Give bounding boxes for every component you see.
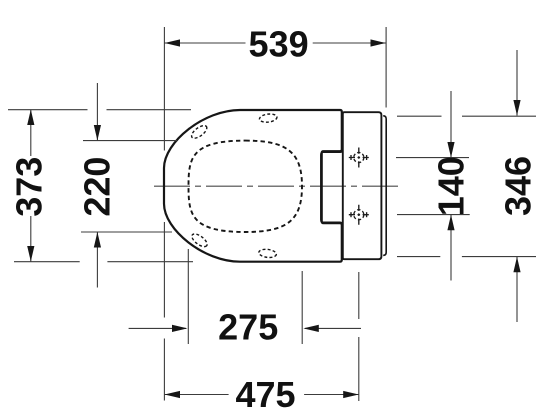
346 up (bottom)	[513, 257, 520, 273]
140 down (top)	[447, 142, 454, 158]
140 up (bottom)	[447, 215, 454, 231]
dim 475 line	[165, 394, 229, 396]
dim 539 line	[165, 42, 246, 44]
346 down (top)	[513, 100, 520, 116]
ext 373 top	[8, 109, 88, 111]
svg-text:140: 140	[431, 156, 472, 216]
ext 275 right	[301, 271, 303, 344]
220 up (bottom)	[94, 232, 101, 248]
ext 275 left	[187, 249, 189, 344]
ext 373 bottom	[14, 261, 80, 263]
ext 220 bottom	[81, 231, 172, 233]
ext 346 bottom	[397, 256, 440, 258]
dim 373 line segments	[30, 110, 32, 157]
bumper bottom-right	[258, 248, 276, 258]
275 left-pointing (right side)	[303, 325, 319, 332]
275 right-pointing (left side)	[172, 325, 188, 332]
475 right	[343, 391, 359, 398]
539 left	[165, 39, 181, 46]
bumper top-right	[259, 113, 277, 123]
dim 275 tails	[129, 327, 186, 329]
ext 140 top	[396, 157, 469, 159]
373 down	[27, 246, 34, 262]
arrowheads	[27, 39, 520, 398]
seat outline	[164, 110, 342, 262]
svg-text:539: 539	[249, 24, 309, 65]
lid edge	[383, 116, 386, 256]
svg-text:275: 275	[218, 307, 278, 348]
ext 346 top	[397, 115, 442, 117]
dim 346 line segments	[516, 50, 518, 116]
svg-text:475: 475	[235, 374, 295, 411]
bumper bottom-left	[190, 232, 209, 249]
mounting crosshair lower	[349, 205, 369, 225]
539 right	[371, 39, 387, 46]
svg-text:220: 220	[77, 157, 118, 217]
ext 475 right	[358, 272, 360, 319]
centerline horizontal axis	[154, 185, 399, 187]
373 up	[27, 110, 34, 126]
ext 539 right	[385, 27, 387, 108]
220 down (top)	[94, 125, 101, 141]
svg-text:373: 373	[9, 157, 50, 217]
ext 220 top	[83, 140, 177, 142]
ext 140 bottom	[397, 214, 470, 216]
dim 140 line segments	[450, 91, 452, 158]
tank unit outline	[343, 112, 382, 259]
mounting crosshair upper	[349, 148, 369, 168]
ext 539 left / 475 left	[163, 27, 165, 151]
inner bowl dashed oval	[189, 141, 303, 232]
bumper top-left	[190, 123, 209, 140]
svg-text:346: 346	[498, 156, 539, 216]
475 left	[165, 391, 181, 398]
hinge tongue hidden edge	[321, 113, 343, 259]
dim 220 line segments	[96, 83, 98, 141]
